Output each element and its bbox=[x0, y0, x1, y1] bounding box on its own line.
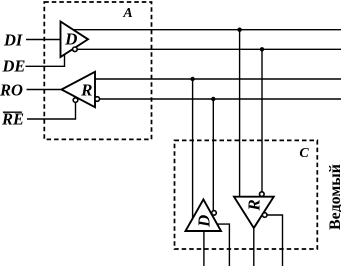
svg-text:R: R bbox=[244, 199, 263, 211]
svg-text:D: D bbox=[194, 215, 213, 228]
svg-text:DI: DI bbox=[3, 31, 23, 50]
bubble on R enable bbox=[73, 98, 78, 103]
junction on line 1 bbox=[237, 28, 241, 32]
receiver R (slave, points down) bbox=[234, 197, 274, 228]
wire DE enable (to bottom edge of D) bbox=[26, 55, 65, 67]
svg-text:A: A bbox=[122, 6, 132, 21]
wire slave DI bbox=[203, 231, 205, 266]
wire bus line 1 (D non-inverting out) bbox=[73, 29, 341, 31]
label Ведомый (slave) bbox=[327, 164, 341, 230]
bubble on slave R inverting input bbox=[260, 192, 265, 197]
box A (dashed, master transceiver) bbox=[44, 2, 151, 139]
wire slave RE bbox=[267, 215, 283, 266]
junction on line 4 bbox=[211, 97, 215, 101]
svg-text:C: C bbox=[299, 146, 309, 161]
svg-text:DE: DE bbox=[2, 57, 26, 76]
wire slave DE bbox=[217, 224, 229, 266]
wire bus line 3 (R input) bbox=[95, 78, 341, 80]
wire drop line2 to slave R bubble bbox=[261, 49, 263, 192]
wire RE enable (to bottom-edge bubble of R) bbox=[27, 102, 76, 119]
svg-text:RO: RO bbox=[0, 81, 23, 100]
driver D (master, triangle) bbox=[61, 22, 89, 58]
bubble on R inverting input bbox=[95, 97, 100, 102]
wire slave RO bbox=[253, 228, 255, 266]
driver D (slave, points up) bbox=[186, 199, 222, 231]
bubble on D inverted output bbox=[73, 47, 78, 52]
wire drop line3 to slave D output bbox=[192, 79, 194, 219]
svg-text:R: R bbox=[80, 81, 92, 100]
wire drop line4 to slave D bubble bbox=[212, 99, 214, 211]
wire bus line 4 (R inverting input) bbox=[99, 98, 341, 100]
wire DI input bbox=[26, 39, 61, 41]
box C (dashed, slave transceiver) bbox=[175, 140, 318, 249]
junction on line 3 bbox=[190, 77, 194, 81]
wire bus line 2 (D inverting out) bbox=[77, 48, 341, 50]
junction on line 2 bbox=[260, 47, 264, 51]
svg-text:D: D bbox=[64, 29, 77, 48]
receiver R (master, triangle) bbox=[62, 72, 96, 107]
svg-text:Ведомый: Ведомый bbox=[327, 164, 341, 230]
wire RO output bbox=[27, 89, 62, 91]
wire drop line1 to slave R input bbox=[239, 30, 241, 197]
bubble on slave R enable bbox=[262, 213, 267, 218]
bubble on slave D inverted output bbox=[212, 211, 217, 216]
